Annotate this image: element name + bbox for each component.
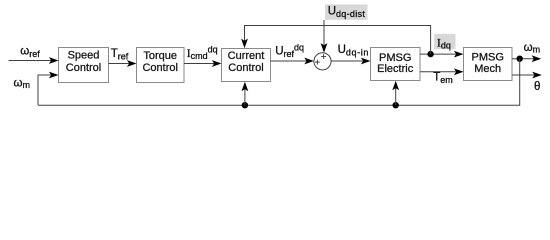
wire omega_m bottom feedback: [38, 59, 520, 105]
svg-text:Control: Control: [66, 62, 101, 74]
wire feedback up into Current Control bottom: [242, 82, 249, 106]
wire Current to summing junction: [271, 58, 314, 65]
svg-text:ωm: ωm: [14, 78, 30, 90]
svg-text:ωm: ωm: [524, 42, 540, 54]
svg-text:Torque: Torque: [143, 50, 177, 62]
wire PMSG Electric to PMSG Mech (T_em): [420, 68, 464, 75]
wire I_dq feedback to Current Control top: [241, 26, 431, 55]
svg-text:PMSG: PMSG: [471, 52, 503, 64]
svg-text:Control: Control: [142, 62, 177, 74]
wire omega_ref input: [9, 57, 59, 64]
wire feedback up into PMSG Electric bottom: [392, 81, 399, 106]
svg-text:PMSG: PMSG: [379, 52, 411, 64]
block Torque Control: [137, 48, 185, 83]
svg-text:Current: Current: [228, 50, 265, 62]
wire PMSG Mech theta output: [512, 72, 542, 79]
label U_dq-dist with gray highlight: [325, 4, 368, 19]
svg-text:Electric: Electric: [377, 63, 414, 75]
svg-text:θ: θ: [534, 81, 540, 93]
wire omega_m feedback input (vertical + horizontal into Speed): [38, 72, 59, 105]
wire Torque to Current: [184, 60, 222, 67]
block PMSG Mech: [464, 48, 513, 81]
wire Speed to Torque: [109, 60, 137, 67]
svg-text:Control: Control: [228, 62, 263, 74]
node junction dot bottom feedback below Current Control: [242, 102, 248, 108]
block PMSG Electric: [371, 48, 421, 81]
node junction dot on omega_m output: [517, 56, 523, 62]
block Current Control: [222, 49, 271, 82]
svg-text:Speed: Speed: [68, 50, 100, 62]
wire PMSG Electric to PMSG Mech (I_dq): [420, 51, 464, 58]
wire PMSG Mech omega_m output: [512, 55, 541, 62]
summing junction: [314, 53, 331, 70]
wire summing junction to PMSG Electric: [331, 58, 370, 65]
wire U_dq-dist drop into summing junction: [321, 20, 328, 53]
node junction dot on I_dq wire: [427, 51, 433, 57]
node junction dot bottom feedback below PMSG Electric: [393, 102, 399, 108]
block Speed Control: [59, 48, 109, 83]
svg-text:Mech: Mech: [474, 63, 501, 75]
label I_dq with gray highlight: [434, 34, 455, 51]
